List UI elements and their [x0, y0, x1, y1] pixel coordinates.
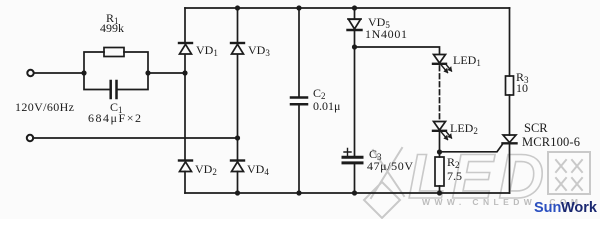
node bridge AC1 — [182, 70, 187, 75]
svg-text:0.01μ: 0.01μ — [313, 99, 340, 113]
terminal T1 — [27, 70, 33, 76]
capacitor C2 — [291, 98, 307, 105]
node top rail VD3 — [235, 5, 240, 10]
wire VD5 branch — [354, 8, 356, 193]
svg-text:47μ/50V: 47μ/50V — [367, 159, 413, 173]
diode VD1 — [179, 43, 192, 54]
wire gate — [440, 144, 504, 152]
svg-text:LED2: LED2 — [450, 121, 478, 136]
svg-text:499k: 499k — [100, 21, 124, 35]
node top rail C2 — [296, 5, 301, 10]
wire VD5 to LED1 — [355, 47, 440, 54]
wire left bridge rail — [184, 8, 186, 193]
LED LED2 — [433, 122, 452, 140]
capacitor C3 — [343, 149, 362, 163]
svg-text:684μF×2: 684μF×2 — [88, 111, 141, 125]
svg-text:VD1: VD1 — [196, 43, 218, 58]
svg-text:10: 10 — [516, 81, 528, 95]
watermark big glyph X-diamond — [364, 148, 404, 218]
node bottom C2 — [296, 190, 301, 195]
diode VD2 — [179, 161, 192, 172]
svg-text:1N4001: 1N4001 — [365, 27, 407, 41]
capacitor C1 — [111, 81, 117, 98]
wire top rail — [185, 7, 510, 9]
wire input bottom — [33, 137, 238, 139]
node bridge AC2 — [235, 135, 240, 140]
svg-text:MCR100-6: MCR100-6 — [522, 135, 580, 149]
diode VD3 — [231, 43, 244, 54]
svg-text:LED1: LED1 — [453, 53, 481, 68]
svg-text:VD2: VD2 — [195, 162, 217, 177]
watermark LED letters — [408, 142, 544, 212]
wire LED2 to R2 — [439, 131, 441, 157]
node loop left — [81, 70, 86, 75]
node VD5 out — [352, 44, 357, 49]
wire input top — [34, 72, 84, 74]
terminal T2 — [27, 135, 33, 141]
node gate — [437, 149, 442, 154]
node loop right — [145, 70, 150, 75]
node top rail VD5 — [352, 5, 357, 10]
svg-text:VD3: VD3 — [248, 43, 270, 58]
resistor R1 — [104, 48, 124, 57]
diode VD5 — [348, 19, 362, 30]
LED LED1 — [433, 55, 452, 73]
wire R2 to bottom rail — [439, 186, 441, 193]
resistor R3 — [506, 76, 514, 95]
resistor R2 — [435, 157, 444, 186]
svg-text:Sun: Sun — [534, 200, 561, 216]
watermark net glyph — [548, 152, 590, 194]
node bottom C3 — [352, 190, 357, 195]
diode VD4 — [231, 161, 244, 172]
svg-text:Work: Work — [561, 200, 598, 216]
wire R1C1 loop — [84, 52, 148, 90]
svg-text:7.5: 7.5 — [447, 169, 462, 183]
wire bottom rail — [185, 192, 510, 194]
wire right rail — [509, 8, 511, 193]
SCR U1 — [503, 135, 517, 143]
wire dashed LED1 to LED2 — [439, 66, 441, 120]
svg-text:120V/60Hz: 120V/60Hz — [15, 100, 74, 114]
wire loop to bridge — [148, 72, 185, 74]
svg-text:SCR: SCR — [524, 121, 548, 135]
node bottom VD4 — [235, 190, 240, 195]
svg-text:VD4: VD4 — [247, 162, 269, 177]
wire C2 branch — [298, 8, 300, 193]
wire second bridge rail — [237, 8, 239, 193]
node bottom R2 — [437, 190, 442, 195]
